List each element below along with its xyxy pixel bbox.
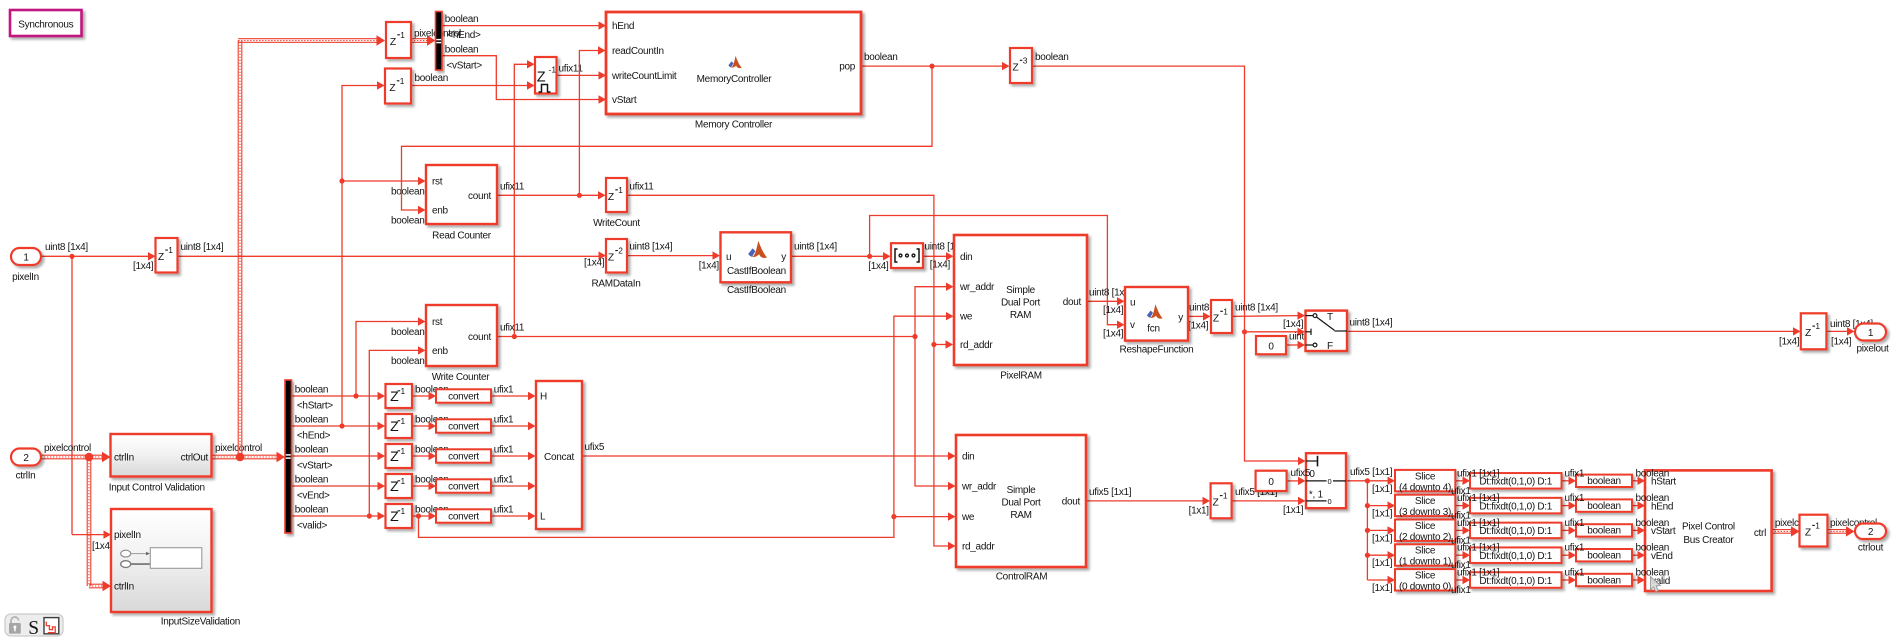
svg-text:Synchronous: Synchronous <box>18 19 73 30</box>
svg-text:Z: Z <box>390 37 396 48</box>
svg-text:1: 1 <box>401 386 406 396</box>
svg-text:boolean: boolean <box>391 327 425 338</box>
inport 2 ctrlIn <box>11 449 41 466</box>
svg-text:boolean: boolean <box>1636 518 1670 529</box>
wire: rate-transition delay to writeCountLimit (ufix11) <box>557 74 600 76</box>
subsystem Input Control Validation <box>111 434 212 477</box>
svg-text:[1x1]: [1x1] <box>1372 558 1393 569</box>
svg-text:-1: -1 <box>549 65 557 75</box>
svg-text:Memory Controller: Memory Controller <box>695 120 773 131</box>
svg-text:ctrl: ctrl <box>1754 528 1766 539</box>
svg-text:pop: pop <box>839 62 856 73</box>
svg-text:1: 1 <box>400 76 405 86</box>
svg-text:uint8 [1x4]: uint8 [1x4] <box>45 242 88 253</box>
delay Z-1 boolean (hEnd delay) <box>385 69 411 104</box>
svg-text:boolean: boolean <box>295 474 329 485</box>
svg-text:[1x4]: [1x4] <box>133 261 154 272</box>
svg-text:[1x4]: [1x4] <box>1283 319 1304 330</box>
svg-text:ctrlIn: ctrlIn <box>114 581 134 592</box>
svg-text:enb: enb <box>432 346 449 357</box>
svg-text:[1x4]: [1x4] <box>1103 305 1124 316</box>
svg-text:boolean: boolean <box>1587 526 1621 537</box>
svg-text:[1x1]: [1x1] <box>1372 484 1393 495</box>
wire: pop feedback down/left to Read Counter enb <box>402 66 933 210</box>
svg-text:ufix5 [1x1]: ufix5 [1x1] <box>1089 487 1132 498</box>
svg-text:readCountIn: readCountIn <box>612 46 664 57</box>
svg-text:y: y <box>781 252 786 263</box>
svg-text:1: 1 <box>1223 306 1228 316</box>
svg-text:ufix1 [1x1]: ufix1 [1x1] <box>1457 568 1500 579</box>
svg-text:Input Control Validation: Input Control Validation <box>109 483 205 494</box>
svg-text:[1x4]: [1x4] <box>1103 329 1124 340</box>
svg-text:WriteCount: WriteCount <box>593 218 640 229</box>
bus wire: ctrlOut up and right to pixelcontrol delay <box>237 41 239 458</box>
rows: bus selector 2 outputs to delays, converts, Concat <box>292 395 379 397</box>
svg-text:uint8 [1x4]: uint8 [1x4] <box>629 242 672 253</box>
wire: input delay to RAMDataIn (long uint8 [1x4] line) <box>178 255 600 257</box>
svg-text:ReshapeFunction: ReshapeFunction <box>1120 345 1194 356</box>
svg-text:din: din <box>962 452 974 463</box>
wire: Read Counter count to WriteCount delay and up to readCountIn <box>497 194 599 196</box>
svg-text:[1x4]: [1x4] <box>699 261 720 272</box>
svg-text:convert: convert <box>448 422 479 433</box>
svg-text:boolean: boolean <box>295 384 329 395</box>
svg-text:uint8 [1x4]: uint8 [1x4] <box>1235 303 1278 314</box>
switch block <box>1306 311 1348 351</box>
svg-text:<hStart>: <hStart> <box>297 400 333 411</box>
svg-text:rst: rst <box>432 177 443 188</box>
svg-text:boolean: boolean <box>1636 493 1670 504</box>
svg-text:Z: Z <box>1805 328 1811 339</box>
svg-text:0: 0 <box>1268 341 1274 352</box>
svg-text:count: count <box>468 191 491 202</box>
wire: reshape concat to PixelRAM din <box>923 255 947 257</box>
bus selector 1 (pixelcontrol) <box>436 12 443 71</box>
bus junction at ctrlOut <box>236 453 245 462</box>
svg-text:[1x4]: [1x4] <box>868 261 889 272</box>
svg-text:u: u <box>726 252 731 263</box>
subsystem Read Counter <box>426 165 497 224</box>
svg-text:T: T <box>1327 312 1333 323</box>
svg-text:uint8 [1x4]: uint8 [1x4] <box>181 242 224 253</box>
svg-text:dout: dout <box>1062 496 1081 507</box>
svg-text:2: 2 <box>1868 527 1874 538</box>
svg-text:1: 1 <box>168 245 173 255</box>
svg-text:we: we <box>959 312 973 323</box>
svg-text:ufix5: ufix5 <box>1291 468 1311 479</box>
svg-text:writeCountLimit: writeCountLimit <box>611 71 677 82</box>
svg-text:Slice: Slice <box>1415 521 1436 532</box>
svg-text:RAM: RAM <box>1010 310 1031 321</box>
svg-text:*, 1: *, 1 <box>1309 490 1324 501</box>
bus wire: ctrlOut to Bus Selector 2 <box>212 454 279 456</box>
svg-text:<vEnd>: <vEnd> <box>297 490 330 501</box>
svg-text:enb: enb <box>432 206 449 217</box>
svg-text:pixelIn: pixelIn <box>12 272 39 283</box>
wire: CastIfBoolean y to reshape concat block <box>791 255 884 257</box>
PixelRAM simple dual port RAM <box>954 235 1087 365</box>
svg-text:Dual Port: Dual Port <box>1001 298 1041 309</box>
svg-text:L: L <box>540 512 546 523</box>
wire: PixelRAM dout to ReshapeFunction u (uint8 [1x4]) <box>1087 300 1118 302</box>
svg-text:boolean: boolean <box>1636 543 1670 554</box>
svg-text:(4 downto 4): (4 downto 4) <box>1399 482 1451 493</box>
svg-text:ufix1 [1x1]: ufix1 [1x1] <box>1457 543 1500 554</box>
svg-text:Z: Z <box>390 418 399 434</box>
bus wire: ctrlout delay to ctrlout port <box>1827 529 1848 531</box>
svg-text:Slice: Slice <box>1415 471 1436 482</box>
svg-text:ctrlOut: ctrlOut <box>181 453 209 464</box>
svg-text:boolean: boolean <box>1636 568 1670 579</box>
wire: WriteCount delay to PixelRAM rd_addr and ControlRAM rd_addr <box>627 195 948 546</box>
svg-text:Dual Port: Dual Port <box>1002 498 1042 509</box>
svg-text:Z: Z <box>608 253 614 264</box>
svg-text:1: 1 <box>618 185 623 195</box>
svg-text:<valid>: <valid> <box>297 520 328 531</box>
svg-text:[1x1]: [1x1] <box>1372 509 1393 520</box>
svg-text:ufix1: ufix1 <box>1565 468 1585 479</box>
delay Z-1 after pixelIn <box>156 238 178 273</box>
reshape concat block [o o o] <box>891 243 923 268</box>
wire: boolean delay to rate-transition delay lower input <box>411 85 528 87</box>
wire: Write Counter count up to rate-transition delay upper input <box>514 64 528 336</box>
svg-text:H: H <box>540 392 547 403</box>
svg-text:Slice: Slice <box>1415 546 1436 557</box>
svg-text:3: 3 <box>1023 55 1028 65</box>
svg-text:vStart: vStart <box>612 95 637 106</box>
rate transition delay Z-1 with sample symbol <box>535 57 557 94</box>
svg-text:ufix1: ufix1 <box>494 504 514 515</box>
svg-text:Z: Z <box>1805 527 1811 538</box>
svg-text:boolean: boolean <box>295 414 329 425</box>
svg-text:F: F <box>1327 341 1333 352</box>
svg-text:2: 2 <box>618 246 623 256</box>
svg-text:ufix1: ufix1 <box>494 444 514 455</box>
svg-text:0: 0 <box>1328 477 1332 486</box>
svg-text:boolean: boolean <box>391 216 425 227</box>
svg-text:S: S <box>28 618 39 639</box>
wire: switch output long line to output delay (uint8 [1x4]) <box>1347 330 1794 332</box>
bus wire: bus creator ctrl to ctrlout delay <box>1772 529 1792 531</box>
svg-text:boolean: boolean <box>295 504 329 515</box>
wire: valid row branch to we of both RAMs <box>419 316 948 537</box>
svg-text:boolean: boolean <box>1587 476 1621 487</box>
svg-text:[1x4]: [1x4] <box>1831 337 1852 348</box>
svg-text:boolean: boolean <box>1035 52 1069 63</box>
svg-text:dout: dout <box>1063 297 1082 308</box>
svg-text:1: 1 <box>401 416 406 426</box>
svg-text:ufix1 [1x1]: ufix1 [1x1] <box>1457 518 1500 529</box>
svg-text:ufix1: ufix1 <box>1565 568 1585 579</box>
wire: output delay to pixelout port <box>1826 330 1848 332</box>
svg-text:ufix11: ufix11 <box>500 323 525 334</box>
svg-text:Z: Z <box>390 448 399 464</box>
wire: pixelIn to input delay (uint8 [1x4]) <box>41 255 149 257</box>
badge: lock, S, sample-time legend <box>5 614 63 636</box>
svg-text:Pixel Control: Pixel Control <box>1682 522 1735 533</box>
svg-text:[1x4]: [1x4] <box>92 541 113 552</box>
svg-text:0: 0 <box>1328 497 1332 506</box>
svg-text:rd_addr: rd_addr <box>962 542 995 553</box>
svg-text:ufix5: ufix5 <box>585 442 605 453</box>
svg-text:Z: Z <box>1012 62 1018 73</box>
delay Z-1 before ctrlout <box>1800 515 1828 547</box>
svg-text:y: y <box>1178 312 1183 323</box>
svg-text:convert: convert <box>448 482 479 493</box>
svg-text:convert: convert <box>448 392 479 403</box>
svg-text:boolean: boolean <box>445 14 479 25</box>
svg-text:rst: rst <box>432 317 443 328</box>
svg-text:<vStart>: <vStart> <box>297 460 333 471</box>
delay RAMDataIn Z-2 <box>606 239 627 273</box>
svg-text:[1x4]: [1x4] <box>1188 321 1209 332</box>
svg-text:<hEnd>: <hEnd> <box>297 430 331 441</box>
MATLAB function CastIfBoolean <box>721 232 792 282</box>
svg-text:RAMDataIn: RAMDataIn <box>592 279 641 290</box>
svg-text:wr_addr: wr_addr <box>961 482 997 493</box>
svg-text:boolean: boolean <box>415 73 449 84</box>
svg-text:ufix1: ufix1 <box>494 384 514 395</box>
svg-text:convert: convert <box>448 512 479 523</box>
svg-text:ufix1: ufix1 <box>494 414 514 425</box>
wire: branch up over PixelRAM to ReshapeFunction v input <box>870 216 1118 325</box>
svg-text:uint8 [1x4]: uint8 [1x4] <box>794 242 837 253</box>
annotation: Synchronous <box>10 10 82 36</box>
svg-text:boolean: boolean <box>1636 468 1670 479</box>
svg-text:hEnd: hEnd <box>612 21 634 32</box>
svg-text:Z: Z <box>608 192 614 203</box>
outport 2 ctrlout <box>1855 524 1886 540</box>
svg-text:convert: convert <box>448 452 479 463</box>
delay Z-3 (pop boolean) <box>1010 48 1032 83</box>
svg-text:Concat: Concat <box>544 452 574 463</box>
svg-text:v: v <box>1130 320 1135 331</box>
svg-text:Z: Z <box>1213 498 1219 509</box>
Slice blocks <box>1395 470 1455 491</box>
svg-text:pixelIn: pixelIn <box>114 530 141 541</box>
bus selector 2 (pixelcontrol fields) <box>285 380 292 533</box>
wire: Bus Selector1 hEnd output to MemoryController hEnd <box>442 25 599 27</box>
wire: Z-3 delay out right and down to both switch control inputs <box>1032 66 1299 461</box>
svg-text:1: 1 <box>1223 491 1228 501</box>
svg-text:ufix1: ufix1 <box>1451 585 1471 596</box>
svg-text:Z: Z <box>389 83 395 94</box>
svg-text:rd_addr: rd_addr <box>960 340 993 351</box>
wire: constant 0 to switch F input <box>1286 344 1299 346</box>
svg-text:(2 downto 2): (2 downto 2) <box>1399 532 1451 543</box>
svg-text:Z: Z <box>158 252 164 263</box>
svg-text:Simple: Simple <box>1006 285 1036 296</box>
svg-text:boolean: boolean <box>391 187 425 198</box>
svg-text:Z: Z <box>1213 313 1219 324</box>
svg-text:0: 0 <box>1268 477 1274 488</box>
svg-text:[1x4]: [1x4] <box>930 260 951 271</box>
wire: constant 0 to multiport switch first data input <box>1287 480 1299 482</box>
wire: Bus Selector1 vStart output to MemoryController vStart <box>442 56 599 100</box>
Pixel Control Bus Creator <box>1645 470 1772 591</box>
wires: slice rows to Dt blocks to boolean to bus creator <box>1455 480 1463 482</box>
svg-text:CastIfBoolean: CastIfBoolean <box>727 285 786 296</box>
wire: ReshapeFunction y to delay <box>1188 315 1204 317</box>
subsystem InputSizeValidation <box>111 509 212 612</box>
svg-text:1: 1 <box>1815 321 1820 331</box>
svg-text:1: 1 <box>401 446 406 456</box>
mouse cursor near valid <box>1651 577 1661 592</box>
junction: hStart row to Write Counter rst <box>353 393 358 398</box>
svg-text:ufix1: ufix1 <box>1565 518 1585 529</box>
svg-text:u: u <box>1130 297 1135 308</box>
svg-text:CastIfBoolean: CastIfBoolean <box>727 266 786 277</box>
svg-text:boolean: boolean <box>1587 501 1621 512</box>
svg-text:1: 1 <box>23 252 29 263</box>
wire: MemoryController pop output to Z-3 delay (boolean) <box>861 65 1003 67</box>
svg-text:we: we <box>961 512 975 523</box>
svg-text:2: 2 <box>23 453 29 464</box>
svg-text:ufix11: ufix11 <box>629 181 654 192</box>
junction: valid row to Write Counter enb <box>367 513 372 518</box>
svg-text:RAM: RAM <box>1010 510 1031 521</box>
svg-text:boolean: boolean <box>445 44 479 55</box>
svg-text:[1x1]: [1x1] <box>1372 533 1393 544</box>
Dt:fixdt conversion blocks <box>1470 473 1562 489</box>
svg-text:boolean: boolean <box>1587 575 1621 586</box>
svg-text:Slice: Slice <box>1415 496 1436 507</box>
wire: multiport switch output to Slice blocks (ufix5 [1x1]) <box>1346 480 1388 482</box>
svg-text:1: 1 <box>1815 520 1820 530</box>
svg-text:Read Counter: Read Counter <box>432 231 492 242</box>
inport 1 pixelIn <box>11 248 41 265</box>
bus junction at ctrlIn branch <box>85 453 94 462</box>
svg-text:[1x1]: [1x1] <box>1372 583 1393 594</box>
wire: hEnd row branch up to boolean delay and Read Counter rst <box>342 86 378 427</box>
svg-text:pixelout: pixelout <box>1856 344 1889 355</box>
svg-text:1: 1 <box>400 30 405 40</box>
wire: delay to switch T input <box>1232 315 1299 318</box>
wire: ControlRAM dout to delay (ufix5 [1x1]) <box>1086 500 1204 502</box>
svg-text:(1 downto 1): (1 downto 1) <box>1399 557 1451 568</box>
row delays Z-1 and convert blocks <box>386 384 413 408</box>
svg-text:<vStart>: <vStart> <box>447 61 483 72</box>
svg-text:1: 1 <box>401 476 406 486</box>
svg-text:count: count <box>468 332 491 343</box>
svg-text:ufix1: ufix1 <box>1565 493 1585 504</box>
subsystem Write Counter <box>426 305 497 366</box>
ControlRAM simple dual port RAM <box>956 435 1086 567</box>
wire: delay to multiport switch data input <box>1232 500 1299 502</box>
delay Z-1 after ControlRAM <box>1211 483 1232 518</box>
svg-text:Simple: Simple <box>1007 485 1037 496</box>
svg-text:ctrlIn: ctrlIn <box>16 471 36 482</box>
svg-text:Bus Creator: Bus Creator <box>1683 535 1734 546</box>
constant 0 (switch false input) <box>1256 336 1286 354</box>
svg-text:uint8 [1x4]: uint8 [1x4] <box>1350 317 1393 328</box>
svg-text:ufix5 [1x1]: ufix5 [1x1] <box>1350 467 1393 478</box>
delay Z-1 before pixelout <box>1801 313 1827 349</box>
svg-text:Z: Z <box>390 388 399 404</box>
svg-text:boolean: boolean <box>295 444 329 455</box>
svg-text:ufix1 [1x1]: ufix1 [1x1] <box>1457 493 1500 504</box>
svg-text:Z: Z <box>390 478 399 494</box>
svg-text:boolean: boolean <box>391 356 425 367</box>
svg-text:wr_addr: wr_addr <box>959 282 995 293</box>
svg-text:fcn: fcn <box>1147 324 1159 335</box>
svg-text:InputSizeValidation: InputSizeValidation <box>161 617 240 628</box>
wire: RAMDataIn delay to CastIfBoolean u <box>627 255 714 257</box>
svg-text:Write Counter: Write Counter <box>432 372 491 383</box>
wire: pixelIn branch down to InputSizeValidation pixelIn <box>71 256 73 534</box>
multiport switch <box>1306 453 1346 508</box>
svg-text:ControlRAM: ControlRAM <box>996 572 1047 583</box>
svg-text:ufix1 [1x1]: ufix1 [1x1] <box>1457 468 1500 479</box>
svg-text:(3 downto 3): (3 downto 3) <box>1399 507 1451 518</box>
svg-text:[1x1]: [1x1] <box>1283 505 1304 516</box>
svg-text:0: 0 <box>1309 469 1315 480</box>
svg-text:ctrlout: ctrlout <box>1858 543 1884 554</box>
svg-text:[1x1]: [1x1] <box>1189 506 1210 517</box>
svg-text:Z: Z <box>390 508 399 524</box>
svg-text:pixelcontrol: pixelcontrol <box>44 443 91 454</box>
svg-text:(0 downto 0): (0 downto 0) <box>1399 582 1451 593</box>
constant 0 (multiport default) <box>1256 471 1287 491</box>
boolean conversion blocks <box>1576 475 1632 487</box>
svg-text:ufix1: ufix1 <box>1565 543 1585 554</box>
svg-text:Slice: Slice <box>1415 571 1436 582</box>
svg-text:PixelRAM: PixelRAM <box>1000 371 1042 382</box>
svg-text:ctrlIn: ctrlIn <box>114 453 134 464</box>
delay Z-1 pixelcontrol (top) <box>386 22 411 58</box>
bus wire: ctrlIn to Input Control Validation (pixelcontrol) <box>41 454 104 456</box>
bus wire: branch down to InputSizeValidation ctrlIn <box>86 457 88 586</box>
svg-text:<hEnd>: <hEnd> <box>447 30 481 41</box>
svg-text:ufix11: ufix11 <box>500 181 525 192</box>
svg-text:[1x4]: [1x4] <box>1779 337 1800 348</box>
svg-text:MemoryController: MemoryController <box>697 74 773 85</box>
svg-text:[1x4]: [1x4] <box>584 258 605 269</box>
svg-text:boolean: boolean <box>1587 551 1621 562</box>
svg-text:boolean: boolean <box>864 52 898 63</box>
svg-text:ufix1: ufix1 <box>494 474 514 485</box>
svg-text:Z: Z <box>537 70 546 86</box>
svg-text:din: din <box>960 252 972 263</box>
delay WriteCount <box>606 178 627 212</box>
subsystem Memory Controller <box>606 12 861 114</box>
svg-text:1: 1 <box>1868 328 1874 339</box>
outport 1 pixelout <box>1855 324 1886 341</box>
wire: Write Counter count to wr_addr of both RAMs (ufix11) <box>497 336 915 338</box>
svg-text:1: 1 <box>401 506 406 516</box>
Concat block <box>536 381 582 529</box>
delay Z-1 after ReshapeFunction <box>1211 300 1232 333</box>
wire: Concat output to ControlRAM din (ufix5) <box>582 455 949 457</box>
MATLAB function ReshapeFunction <box>1125 287 1188 341</box>
